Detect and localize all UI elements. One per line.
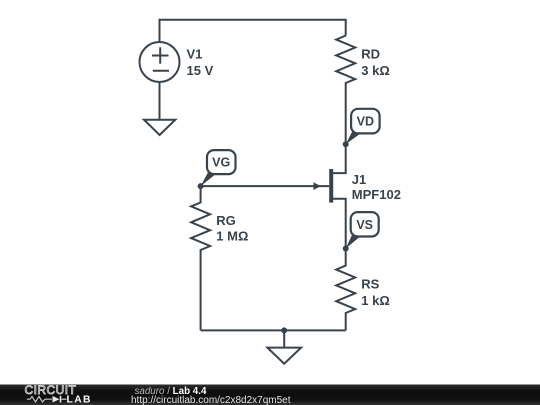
svg-text:RS: RS: [361, 276, 379, 291]
svg-text:1 MΩ: 1 MΩ: [216, 229, 248, 244]
svg-text:V1: V1: [187, 47, 203, 62]
svg-text:RD: RD: [361, 46, 380, 61]
svg-text:15 V: 15 V: [187, 63, 214, 78]
svg-text:RG: RG: [216, 213, 236, 228]
svg-text:VD: VD: [357, 115, 374, 129]
svg-text:MPF102: MPF102: [352, 187, 401, 202]
svg-text:VS: VS: [356, 218, 373, 232]
svg-text:VG: VG: [212, 156, 230, 170]
svg-text:3 kΩ: 3 kΩ: [361, 63, 390, 78]
svg-text:http://circuitlab.com/c2x8d2x7: http://circuitlab.com/c2x8d2x7qm5et: [131, 395, 291, 405]
svg-text:1 kΩ: 1 kΩ: [361, 293, 390, 308]
svg-text:LAB: LAB: [67, 395, 92, 405]
svg-text:J1: J1: [352, 172, 366, 187]
